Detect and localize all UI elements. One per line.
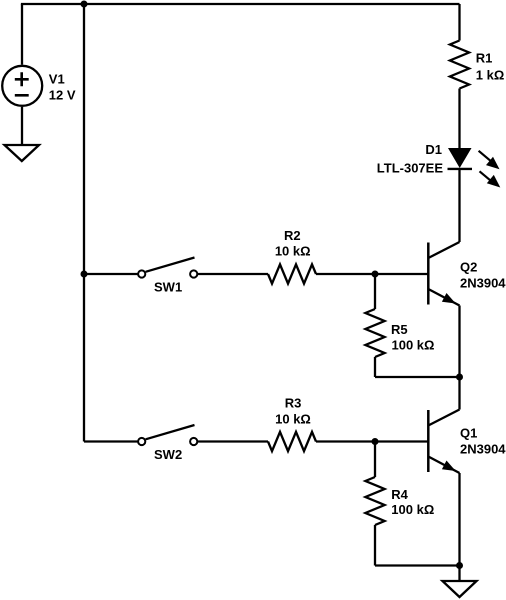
junction node Q1 base / R4 — [372, 438, 379, 445]
wire left rail corner to SW2 — [84, 440, 138, 442]
Q1 emitter arrowhead — [442, 461, 456, 472]
junction node SW1 — [81, 271, 88, 278]
transistor Q1 emitter diagonal — [428, 457, 459, 474]
svg-text:SW2: SW2 — [154, 447, 182, 462]
svg-text:10 kΩ: 10 kΩ — [275, 411, 311, 426]
wire left rail — [83, 4, 85, 442]
LED light arrow 1 — [479, 151, 491, 161]
switch SW1 throw circle — [190, 270, 197, 277]
ground under V1 — [5, 145, 40, 161]
wire SW1 to R2 — [198, 273, 268, 275]
transistor Q1 collector diagonal — [428, 410, 459, 426]
Q2 emitter arrowhead — [442, 293, 456, 304]
junction node top rail — [81, 1, 88, 8]
transistor Q2 collector diagonal — [428, 242, 459, 258]
svg-text:SW1: SW1 — [154, 279, 182, 294]
voltage source V1 circle — [2, 66, 42, 106]
svg-text:1 kΩ: 1 kΩ — [476, 68, 505, 83]
junction node Q1 emitter / ground — [456, 562, 463, 569]
switch SW2 lever — [146, 425, 195, 439]
wire node E to R4 — [374, 442, 376, 478]
wire R5 to emitter node — [375, 376, 460, 378]
LED D1 triangle — [448, 148, 472, 168]
svg-text:R1: R1 — [476, 51, 493, 66]
junction node Q2 base / R5 — [372, 271, 379, 278]
wire node F to ground — [458, 566, 460, 582]
wire R3 to Q1 base — [316, 440, 428, 442]
wire R2 to Q2 base — [316, 273, 428, 275]
wire Q1 emitter down — [458, 473, 460, 566]
svg-text:D1: D1 — [425, 142, 442, 157]
transistor Q1 base bar — [427, 410, 430, 472]
resistor R2 — [268, 264, 316, 283]
svg-text:R4: R4 — [391, 487, 408, 502]
svg-text:R3: R3 — [285, 395, 302, 410]
resistor R1 — [450, 41, 469, 89]
LED D1 cathode bar — [448, 168, 473, 170]
transistor Q2 emitter diagonal — [428, 289, 459, 306]
wire R5 bottom lead — [374, 357, 376, 377]
svg-text:2N3904: 2N3904 — [460, 441, 506, 456]
switch SW2 throw circle — [190, 438, 197, 445]
switch SW1 pole circle — [138, 270, 145, 277]
switch SW2 pole circle — [138, 438, 145, 445]
V1 plus sign — [15, 72, 29, 86]
svg-text:100 kΩ: 100 kΩ — [392, 338, 435, 353]
svg-text:2N3904: 2N3904 — [460, 275, 506, 290]
svg-text:Q2: Q2 — [460, 260, 477, 275]
svg-text:V1: V1 — [49, 71, 65, 86]
V1 minus sign — [15, 94, 29, 97]
wire R4 bottom lead — [374, 525, 376, 566]
wire node C to R5 — [374, 274, 376, 309]
svg-text:LTL-307EE: LTL-307EE — [377, 161, 444, 176]
wire R1 to D1 — [458, 89, 460, 149]
wire right rail top — [458, 4, 460, 41]
transistor Q2 base bar — [427, 243, 430, 305]
wire D1 cathode to Q2 collector — [458, 168, 460, 242]
resistor R4 — [365, 477, 384, 525]
svg-text:12 V: 12 V — [49, 88, 76, 103]
ground bottom right — [443, 581, 477, 597]
svg-text:R5: R5 — [391, 322, 408, 337]
wire SW1 to left rail — [84, 273, 138, 275]
resistor R3 — [268, 432, 316, 451]
wire Q2 emitter down — [458, 306, 460, 378]
wire top rail — [21, 3, 460, 5]
junction node Q2 emitter / R5 — [456, 374, 463, 381]
wire R4 to ground node — [375, 564, 460, 566]
resistor R5 — [365, 309, 384, 357]
svg-text:10 kΩ: 10 kΩ — [275, 244, 311, 259]
wire V1 bottom lead — [21, 107, 23, 145]
wire node D to Q1 collector — [458, 377, 460, 410]
svg-text:Q1: Q1 — [460, 426, 477, 441]
LED light arrow 2 — [480, 171, 492, 181]
switch SW1 lever — [146, 258, 195, 272]
wire V1 top lead — [21, 4, 23, 65]
wire SW2 to R3 — [198, 440, 268, 442]
svg-text:100 kΩ: 100 kΩ — [391, 502, 434, 517]
svg-text:R2: R2 — [284, 228, 301, 243]
